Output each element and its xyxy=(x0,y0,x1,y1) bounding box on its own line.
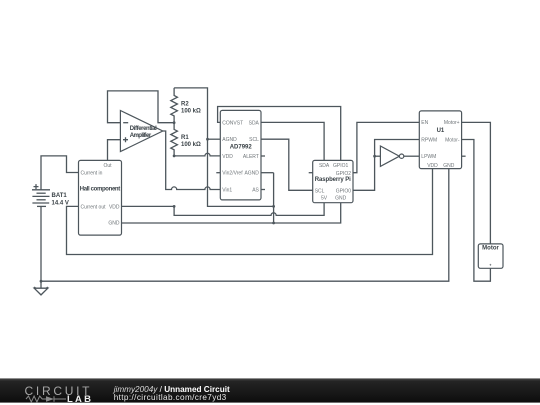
svg-text:R1: R1 xyxy=(181,135,189,141)
svg-text:5V: 5V xyxy=(321,196,328,202)
pin stub AD7992 Vin2/Vref xyxy=(216,172,220,174)
op-amp U2 Differential Amplifier xyxy=(120,111,162,152)
svg-text:AD7992: AD7992 xyxy=(230,144,253,150)
wire Raspberry Pi GPIO0 to U1 RPWM xyxy=(353,140,419,191)
AD7992 xyxy=(220,110,261,199)
svg-text:Differential: Differential xyxy=(130,126,157,132)
svg-text:GPIO0: GPIO0 xyxy=(336,188,352,194)
wire 5V: R1 bottom node down to Raspberry Pi 5V (hop over AGND wire) xyxy=(174,203,324,216)
svg-text:U1: U1 xyxy=(437,128,445,134)
svg-text:AGND: AGND xyxy=(222,137,237,143)
svg-text:VDD: VDD xyxy=(109,204,120,210)
pin stub Raspberry Pi left row2 xyxy=(309,172,313,174)
wire AD7992 SDA to Raspberry Pi SDA xyxy=(261,122,324,160)
svg-text:SCL: SCL xyxy=(315,188,325,194)
svg-text:Out: Out xyxy=(103,163,112,169)
wire Hall GND rail to Raspberry Pi GND xyxy=(122,203,341,223)
wire battery- down to ground rail xyxy=(40,206,42,281)
svg-text:SDA: SDA xyxy=(249,120,260,126)
svg-text:EN: EN xyxy=(421,120,428,126)
wire U1 Motor+ to Motor top xyxy=(462,122,491,243)
wire Raspberry Pi GPIO2 to U1 EN xyxy=(353,122,419,172)
svg-text:LPWM: LPWM xyxy=(421,154,436,160)
svg-text:Motor: Motor xyxy=(482,245,499,251)
svg-text:BAT1: BAT1 xyxy=(52,193,68,199)
svg-text:GPIO2: GPIO2 xyxy=(336,171,352,177)
Hall component xyxy=(79,160,122,235)
svg-text:ALERT: ALERT xyxy=(243,154,259,160)
svg-text:VDD: VDD xyxy=(222,154,233,160)
node Hall VDD junction xyxy=(173,205,176,208)
svg-text:Hall component: Hall component xyxy=(80,186,121,192)
wire battery+ to Hall Current in xyxy=(41,156,79,190)
svg-text:GPIO1: GPIO1 xyxy=(333,163,349,169)
pin stub AD7992 ALERT xyxy=(261,155,265,157)
wire AD7992 SCL to Raspberry Pi SCL xyxy=(261,139,313,190)
pin stub U1 right row3 xyxy=(462,155,466,157)
wire Hall Current out to U1 VDD (bottom rail) xyxy=(67,169,433,255)
wire inverter output to U1 LPWM xyxy=(404,155,420,157)
wire op-amp minus input feedback loop to R divider node xyxy=(108,91,175,123)
wire Hall VDD to R1 bottom node xyxy=(122,205,175,207)
svg-text:Current in: Current in xyxy=(81,171,103,177)
ground xyxy=(34,281,48,295)
wire R1 bottom to AD7992 VDD (hop over AGND vertical) xyxy=(174,153,220,156)
node inverter input tap xyxy=(373,155,376,158)
svg-text:AS: AS xyxy=(252,188,259,194)
svg-text:R2: R2 xyxy=(181,101,189,107)
svg-text:Vin2/Vref: Vin2/Vref xyxy=(222,171,243,177)
wire AD7992 right AGND stub xyxy=(261,172,274,174)
wire op-amp plus input to Hall Out xyxy=(108,140,121,161)
svg-text:http://circuitlab.com/cre7yd3: http://circuitlab.com/cre7yd3 xyxy=(114,393,227,402)
resistor R2 100k xyxy=(171,88,201,123)
svg-text:VDD: VDD xyxy=(427,163,438,169)
svg-text:Current out: Current out xyxy=(81,204,107,210)
Raspberry Pi xyxy=(313,160,353,202)
wire R2 top to AGND net (down right side, to GND rail) xyxy=(174,88,274,223)
footer bar xyxy=(0,378,540,405)
svg-text:SCL: SCL xyxy=(249,137,259,143)
svg-text:100 kΩ: 100 kΩ xyxy=(181,108,201,114)
svg-text:LAB: LAB xyxy=(67,394,91,405)
node AGND junction at rail turn xyxy=(272,205,275,208)
wire U1 Motor- to Motor bottom xyxy=(462,140,491,282)
wire AD7992 CONVST to Raspberry Pi GPIO1 xyxy=(218,107,341,161)
svg-text:100 kΩ: 100 kΩ xyxy=(181,142,201,148)
svg-text:Motor+: Motor+ xyxy=(444,120,460,126)
node R1 bottom junction xyxy=(173,155,176,158)
svg-text:CONVST: CONVST xyxy=(222,120,243,126)
svg-text:AGND: AGND xyxy=(244,171,259,177)
wire ground rail to U1 GND xyxy=(41,169,449,282)
wire AD7992 left AGND to R2 vertical xyxy=(208,138,221,140)
node GND rail junction xyxy=(272,222,275,225)
pin stub AD7992 AS xyxy=(261,189,265,191)
node R2-R1 divider junction xyxy=(173,121,176,124)
svg-text:GND: GND xyxy=(443,163,455,169)
battery BAT1 xyxy=(32,184,69,207)
svg-text:Raspberry Pi: Raspberry Pi xyxy=(315,177,351,183)
U1 motor driver xyxy=(419,111,461,169)
Motor M1 xyxy=(478,244,503,268)
svg-text:Motor-: Motor- xyxy=(445,138,460,144)
node battery-ground junction xyxy=(40,280,43,283)
svg-text:GND: GND xyxy=(335,196,347,202)
node AGND tap xyxy=(206,138,209,141)
wire op-amp output down to AD7992 Vin1 (hops over two verticals) xyxy=(163,131,221,190)
svg-text:Vin1: Vin1 xyxy=(222,188,232,194)
svg-text:RPWM: RPWM xyxy=(421,138,437,144)
inverter (NOT gate) xyxy=(380,146,403,166)
svg-text:14.4 V: 14.4 V xyxy=(52,201,69,207)
resistor R1 100k xyxy=(171,123,201,156)
svg-text:SDA: SDA xyxy=(319,163,330,169)
wire tap to inverter input xyxy=(375,155,381,157)
svg-text:GND: GND xyxy=(108,221,120,227)
svg-text:Amplifier: Amplifier xyxy=(130,133,152,139)
